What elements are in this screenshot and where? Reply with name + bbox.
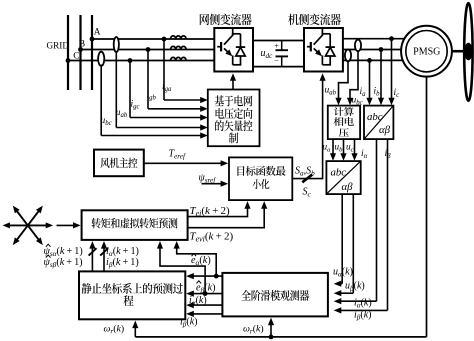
label u_bc [101,116,112,127]
dc link capacitor C1 [276,41,289,67]
grid bus bar phase C [91,15,93,90]
label e_beta [196,281,216,295]
label i_b [374,87,381,98]
vector control box [208,90,260,147]
svg-text:αβ: αβ [379,124,391,136]
wire phase B to converter [81,49,216,51]
label i_beta [385,149,392,160]
svg-text:eβ​(k): eβ​(k) [196,282,216,294]
phase voltage calculation box [328,106,360,140]
label i_ga [162,82,172,93]
label omega_r center [243,324,264,336]
wire vector control to converter U1 [230,73,236,89]
converter U1 IGBT and diode [217,29,245,65]
label psi_sbeta [44,255,83,269]
label i_alpha [361,149,368,160]
wire u_a [330,139,336,161]
slash S_abc [302,175,312,183]
svg-text:B: B [79,39,85,49]
dc link top rail [253,40,304,42]
node i_b tap [379,47,384,52]
wire wind to torque prediction [57,222,81,228]
sliding mode observer box [222,273,328,317]
phase voltage calculation text [334,107,354,137]
wire omega_r bottom [135,336,426,338]
objective minimization text [237,166,285,189]
wire u_bc measurement machine [347,51,358,106]
grid bus bar phase B [79,15,81,90]
wire phase A to converter [92,38,215,40]
objective minimization box [229,157,292,200]
wire omega_r to prediction [132,321,138,337]
wire i_ga measurement [164,39,208,103]
wire u_ab measurement machine [335,61,348,106]
svg-text:C: C [73,51,79,61]
wire T_ei [188,201,251,217]
stationary frame prediction box [79,271,185,319]
label i_c [394,88,400,99]
wire phase C to converter [68,60,215,62]
abc-alphabeta current transform labels [367,111,391,136]
svg-text:iα​(k): iα​(k) [189,295,207,307]
wind turbine master control box [94,150,144,177]
svg-text:ωr​(k): ωr​(k) [104,324,125,336]
wire u_alpha [334,194,343,287]
svg-text:A: A [94,28,101,38]
wire psi_sref [202,181,229,187]
label T_evi [190,231,234,244]
wire stator phase b [343,49,401,51]
voltage transformer u_ab [114,37,119,52]
label omega_r left [104,324,125,336]
wire stator phase c [343,59,403,61]
node i_ga tap [162,37,167,42]
abc-alphabeta current transform box [364,106,393,140]
svg-text:iβ​(k): iβ​(k) [354,310,372,322]
label GRID [47,41,70,51]
machine-side converter box U2 [304,28,343,72]
sliding mode observer text [241,290,309,301]
label S_c [303,187,312,199]
torque prediction box [82,210,188,240]
wire S_abc to converter U2 [292,73,325,178]
wire i_a measurement [366,60,372,105]
node e_alpha junction [214,274,219,279]
svg-text:eα​(k): eα​(k) [191,255,211,267]
slash current prediction [100,248,108,255]
label T_eref [169,149,186,161]
wire i_b measurement [378,50,384,106]
label machine-side converter [288,14,341,26]
stationary frame prediction text [82,283,183,306]
wire T_evi [188,201,268,228]
label u_alpha k [333,267,353,279]
wire i_alpha to prediction [186,302,222,308]
label u_beta k [345,281,365,293]
wire rotor shaft [426,77,428,337]
wire i_c measurement [388,39,394,106]
voltage transformer u_bc [98,52,104,66]
PMSG outer circle [401,26,452,77]
wire i_beta [334,139,388,313]
wire current prediction [101,241,107,271]
label psi_salpha [44,244,83,258]
svg-text:+: + [274,41,279,50]
label PMSG [413,47,440,58]
label plus [274,41,279,50]
wire omega_r to observer [268,318,274,337]
svg-text:GRID: GRID [47,41,70,51]
svg-text:αβ: αβ [342,181,354,193]
node omega_r junction [269,335,274,340]
label i_beta k obs [354,310,372,322]
PMSG inner circle [406,31,447,72]
label u_a [323,141,332,153]
wire i_gb measurement [148,50,208,112]
svg-text:ωr​(k): ωr​(k) [243,324,264,336]
label i_gc [131,100,140,111]
wire u_bc measurement [101,65,208,139]
abc-alphabeta voltage transform box [326,161,360,194]
label i_gb [147,91,157,102]
node C on bus [66,58,71,63]
vector control text [215,95,253,143]
wire e_alpha [174,241,223,279]
voltage transformer machine u_bc [355,40,361,52]
converter U2 IGBT and diode [307,29,335,65]
wire T_eref [144,160,228,166]
label i_alpha k1 [106,246,139,258]
svg-text:ψsβ​(k + 1): ψsβ​(k + 1) [44,257,83,269]
node i_gb tap [146,47,151,52]
label C [73,51,79,61]
label i_a [360,87,367,98]
label u_bc machine [352,95,363,106]
wind turbine master control text [100,158,137,168]
label u_ab [116,108,128,119]
label i_alpha k obs [354,298,372,310]
wire u_c [351,139,357,161]
inductor phase C [171,57,187,60]
svg-text:−: − [274,57,279,66]
wire stator phase a [343,38,405,40]
label u_ab machine [325,86,337,97]
turbine blades [464,3,472,101]
label i_beta k1 [106,257,139,269]
svg-text:uα​(k): uα​(k) [333,267,353,279]
label T_ei [190,205,230,218]
turbine shaft [452,50,465,53]
label B [79,39,85,49]
abc-alphabeta voltage transform labels [331,166,354,193]
grid bus bar phase A [67,15,69,90]
svg-text:uβ​(k): uβ​(k) [345,281,365,293]
label e_alpha [191,254,211,268]
label A [94,28,101,38]
wire i_gc measurement [130,61,208,121]
node e_beta junction [203,291,208,296]
wire u_b [340,139,346,161]
svg-text:iα​(k): iα​(k) [354,298,372,310]
node B on bus [78,47,83,52]
inductor phase A [171,36,187,39]
wire u_ab measurement [116,51,208,131]
wind star symbol [3,206,54,245]
label psi_sref [199,173,217,185]
voltage transformer machine u_ab [345,50,351,62]
label minus [274,57,279,66]
inductor phase B [171,46,187,49]
dc link bottom rail [253,66,304,68]
label u_dc [261,48,274,60]
grid-side converter box U1 [214,28,253,72]
wire e_beta [157,241,223,297]
svg-text:abc: abc [367,111,383,123]
node i_c tap [389,36,394,41]
label S_a S_b [295,166,315,178]
torque prediction text [91,218,177,229]
slash flux prediction [89,248,97,255]
svg-text:Tei​(k + 2): Tei​(k + 2) [190,205,230,218]
wire i_alpha [334,139,377,304]
svg-text:abc: abc [331,166,347,178]
node A on bus [90,37,95,42]
node i_gc tap [128,58,133,63]
label grid-side converter [200,14,252,26]
label i_alpha k [189,295,207,307]
label u_c [346,141,354,153]
wire i_beta to prediction [186,311,222,317]
wire u_beta [334,194,354,296]
label i_beta k [180,317,198,329]
node i_a tap [367,58,372,63]
label u_b [335,141,344,153]
wire flux prediction [89,241,95,271]
svg-text:PMSG: PMSG [413,47,440,58]
